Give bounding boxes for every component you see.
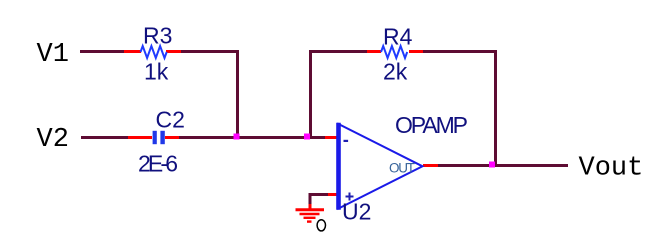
svg-text:OUT: OUT [389,161,415,176]
svg-text:V1: V1 [37,40,69,70]
svg-text:2k: 2k [383,59,408,85]
svg-text:Vout: Vout [579,154,644,184]
svg-text:R3: R3 [143,23,172,49]
svg-text:V2: V2 [37,125,69,155]
svg-text:R4: R4 [383,24,413,50]
svg-text:2E-6: 2E-6 [138,151,178,177]
svg-text:1k: 1k [144,59,169,85]
svg-text:OPAMP: OPAMP [395,112,468,138]
svg-text:U2: U2 [342,199,371,225]
svg-text:C2: C2 [156,106,185,132]
